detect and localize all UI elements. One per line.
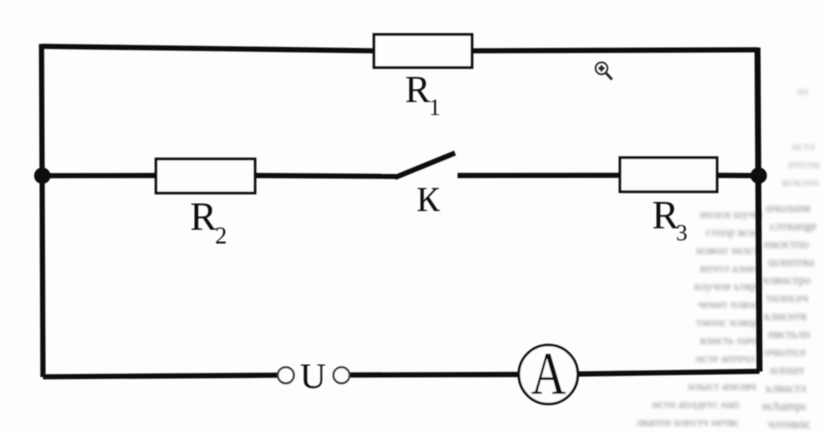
svg-text:ьлвастл: ьлвастл <box>766 381 806 395</box>
svg-text:R: R <box>652 192 679 237</box>
svg-text:шлнптвa: шлнптвa <box>768 255 815 269</box>
wire: left vertical <box>42 44 44 377</box>
svg-text:лвапти нлестч нетвс: лвапти нлестч нетвс <box>636 415 739 429</box>
resistor R3 <box>620 158 717 192</box>
label R3 <box>652 192 688 245</box>
wire: top-left horizontal segment <box>42 46 375 51</box>
svg-text:U: U <box>300 356 326 396</box>
label R2 <box>190 194 227 250</box>
switch K lever <box>395 153 455 178</box>
svg-text:нвстьлп: нвстьлп <box>768 327 810 341</box>
source U: left terminal <box>278 367 294 383</box>
svg-text:слтвange: слтвange <box>770 219 817 233</box>
svg-text:члтнвпс: члтнвпс <box>768 417 811 431</box>
wire: U to ammeter <box>350 372 518 378</box>
svg-text:A: A <box>531 341 566 407</box>
label R1 <box>405 69 441 120</box>
resistor R2 <box>156 159 255 193</box>
svg-text:тнлпсеч: тнлпсеч <box>766 291 808 305</box>
wire: ammeter to bottom-right corner <box>579 371 760 374</box>
source U: right terminal <box>334 367 350 383</box>
wire: R2 to switch pivot <box>255 173 396 179</box>
svg-text:члвнстро: члвнстро <box>762 273 811 287</box>
svg-text:нплси шучм: нплси шучм <box>700 207 763 221</box>
svg-text:тмопс нлвцс: тмопс нлвцс <box>696 315 759 329</box>
svg-text:нлучпя ътвря: нлучпя ътвря <box>694 279 763 293</box>
svg-text:лп: лп <box>796 84 809 98</box>
svg-text:впчтл алнес: впчтл алнес <box>700 261 761 275</box>
svg-text:нстл: нстл <box>792 139 815 153</box>
wire: R3 to node B <box>717 173 759 178</box>
svg-text:К: К <box>417 180 441 219</box>
zoom cursor artifact <box>596 62 613 79</box>
svg-text:нсти аплдетс нап: нсти аплдетс нап <box>652 397 740 411</box>
resistor R1 <box>374 35 472 68</box>
svg-text:R: R <box>405 69 431 111</box>
bleed-through artifacts (decorative) <box>782 84 820 189</box>
svg-text:R: R <box>190 194 217 239</box>
svg-text:итплм: итплм <box>788 157 820 171</box>
wire: switch to R3 <box>458 173 621 178</box>
node A (left junction) <box>34 168 50 184</box>
svg-text:ченит плвхо: ченит плвхо <box>698 297 760 311</box>
svg-text:3: 3 <box>676 221 688 246</box>
wire: bottom-left segment <box>43 375 277 377</box>
ammeter A <box>519 341 578 407</box>
svg-text:стопр вснл: стопр вснл <box>706 225 761 239</box>
wire: top-right horizontal segment <box>472 50 758 51</box>
svg-text:2: 2 <box>215 224 227 250</box>
svg-text:влнсть пачт: влнсть пачт <box>700 333 760 347</box>
wire: right vertical <box>758 48 760 372</box>
svg-text:очнлтсе: очнлтсе <box>764 345 806 359</box>
svg-text:нлпшт: нлпшт <box>770 363 805 377</box>
svg-text:нмлстпо: нмлстпо <box>764 237 809 251</box>
svg-text:клиснтв: клиснтв <box>764 309 807 323</box>
svg-text:нсте аптечл: нсте аптечл <box>696 351 755 365</box>
svg-text:1: 1 <box>429 95 441 120</box>
svg-text:нchampс: нchampс <box>762 399 808 413</box>
node B (right junction) <box>751 167 767 183</box>
svg-text:всмлпо: всмлпо <box>782 175 819 189</box>
svg-text:млвоп энлст: млвоп энлст <box>696 243 759 257</box>
svg-text:нчолsnм: нчолsnм <box>766 201 810 215</box>
wire: middle left segment (node A to R2) <box>42 173 156 178</box>
svg-text:нлыст апелвч: нлыст апелвч <box>688 379 756 393</box>
